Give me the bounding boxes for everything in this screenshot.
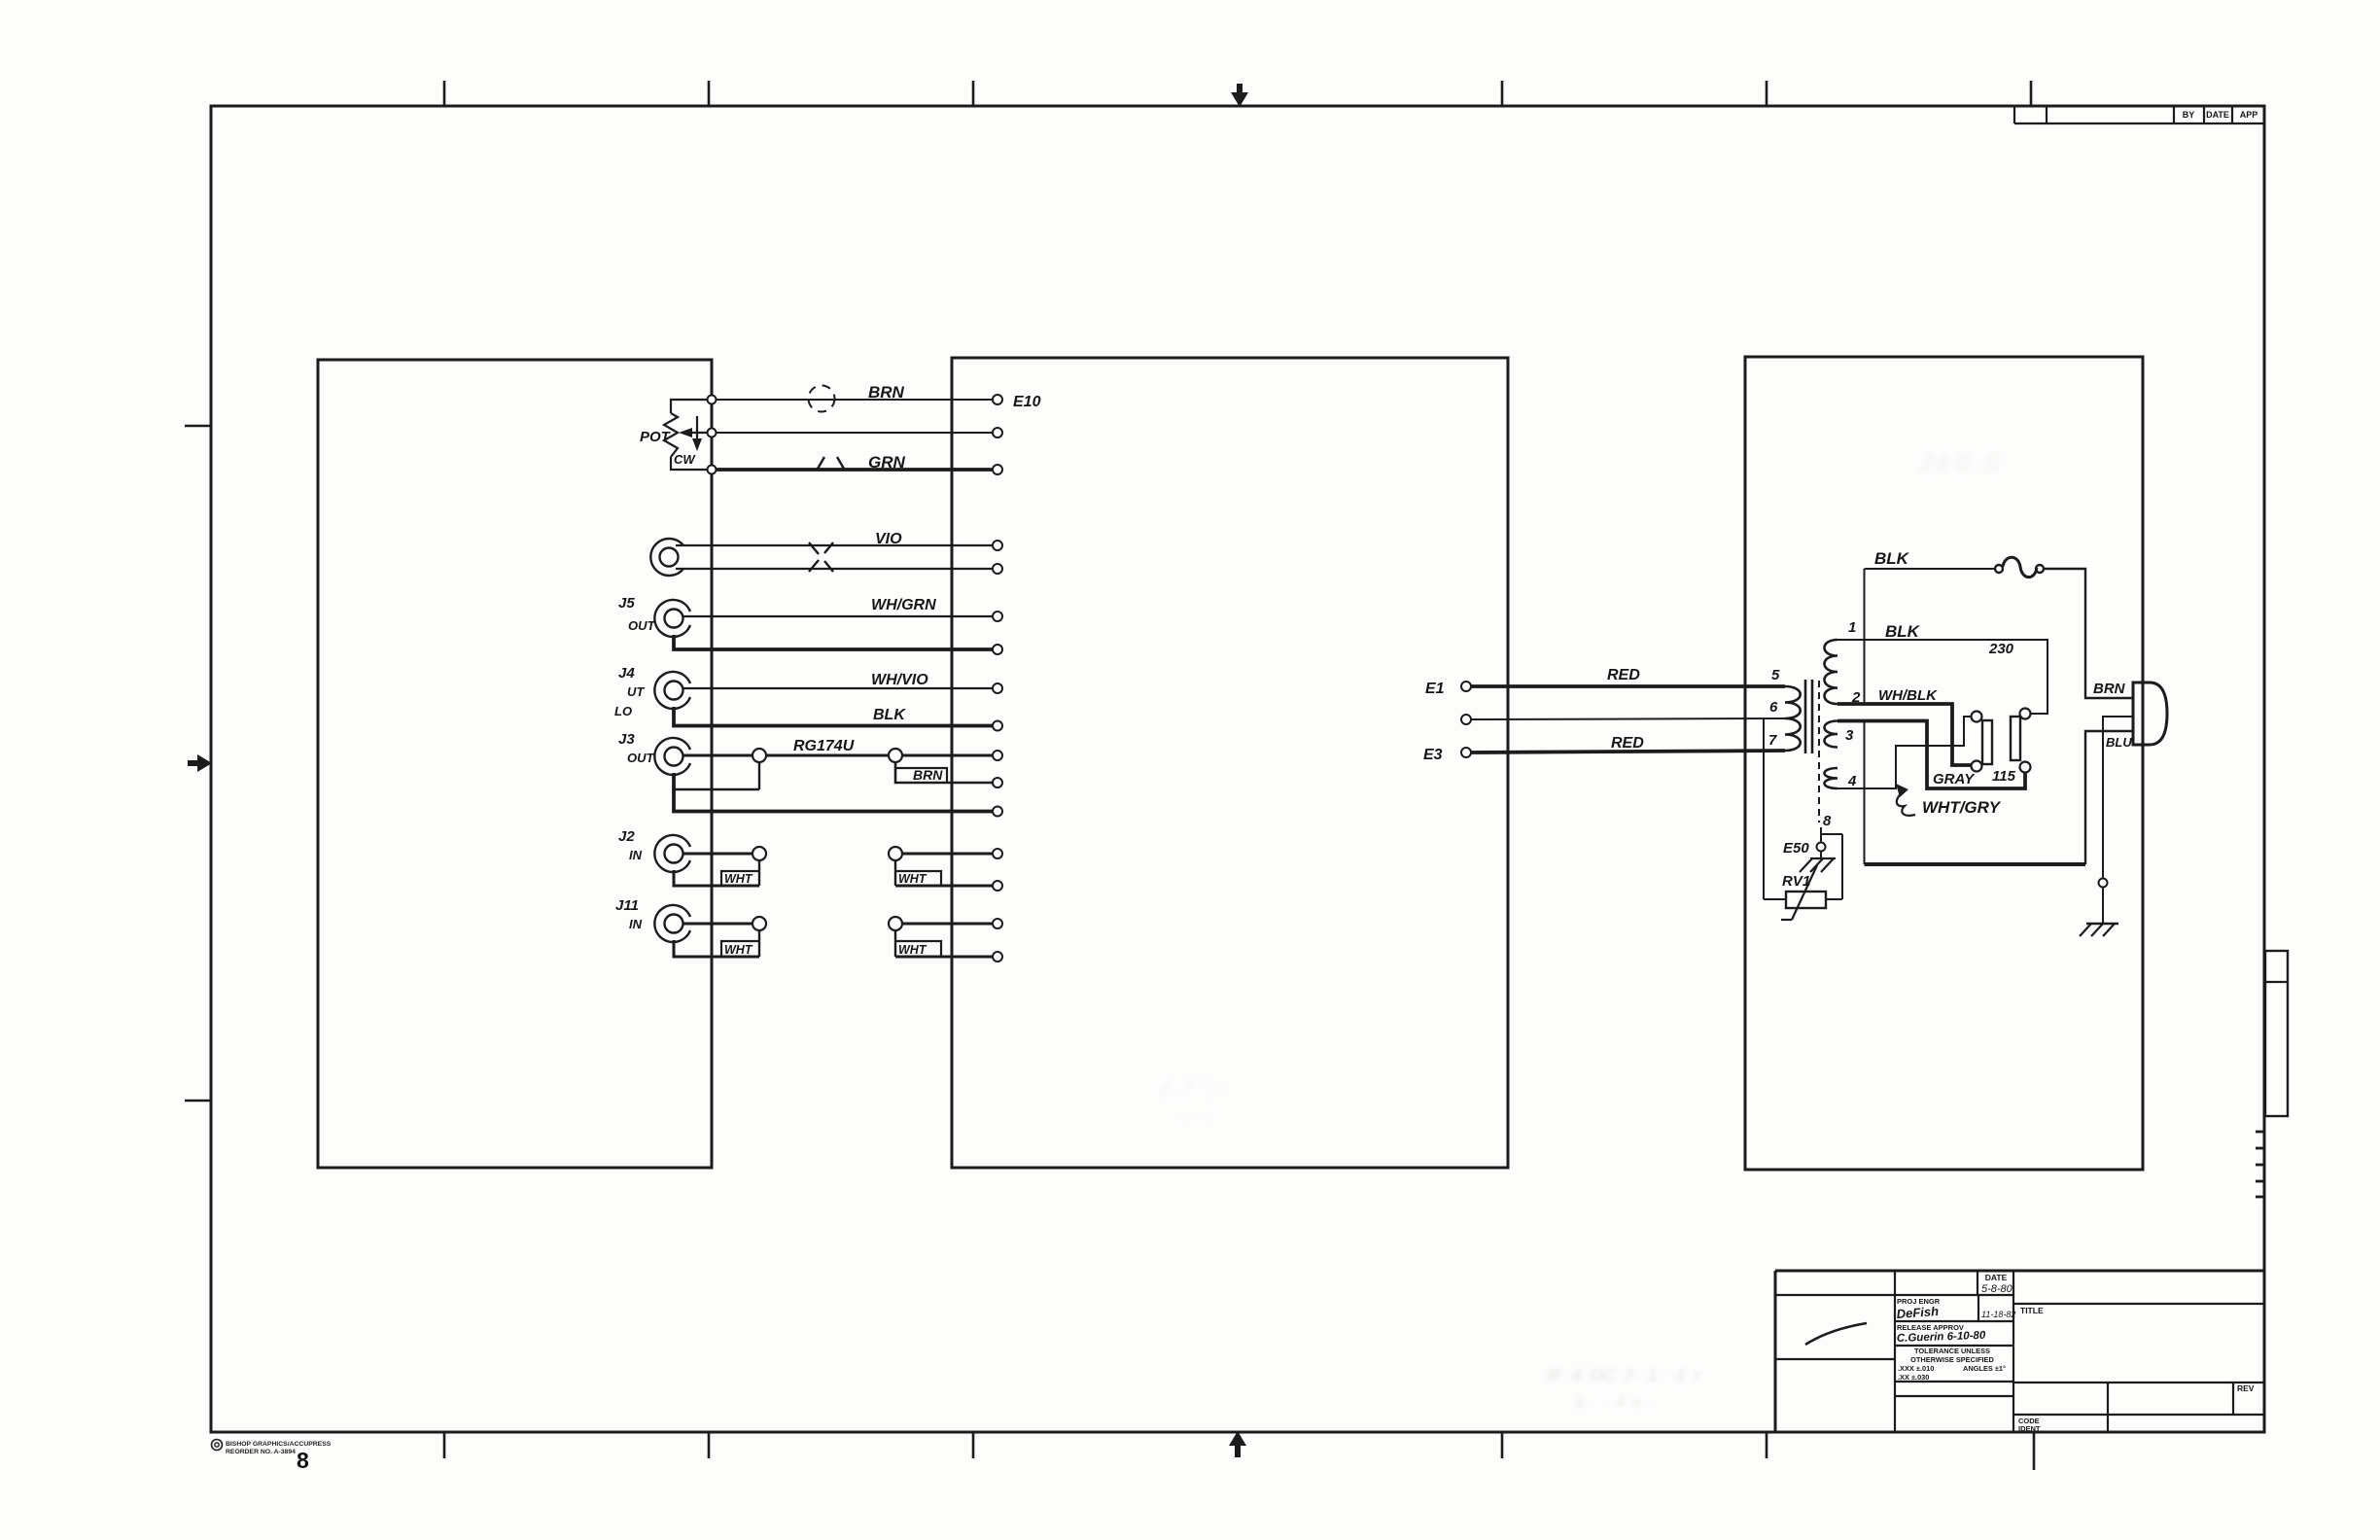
wire fuse to plug BRN pin xyxy=(2044,569,2133,698)
terminal E50 xyxy=(1817,843,1826,852)
svg-text:REV: REV xyxy=(2237,1383,2255,1393)
BRN flag on J3 drain xyxy=(895,762,993,783)
right chassis block xyxy=(1745,357,2143,1170)
svg-text:ANGLES ±1°: ANGLES ±1° xyxy=(1963,1364,2006,1373)
POT wiper arrow xyxy=(683,432,708,434)
svg-text:IF 4 OC 7- 1 -1 r: IF 4 OC 7- 1 -1 r xyxy=(1548,1366,1701,1384)
wire GRN xyxy=(717,468,994,472)
svg-text:8: 8 xyxy=(1823,813,1832,829)
svg-text:-, - . ;: -, - . ; xyxy=(1176,1107,1212,1124)
right edge dash marks xyxy=(2256,1131,2263,1134)
wire VIO lower xyxy=(676,568,993,570)
potentiometer POT xyxy=(671,400,708,413)
title block lower cells xyxy=(2013,1382,2264,1383)
terminal J3 drain xyxy=(993,778,1002,787)
connector J3 xyxy=(654,738,690,775)
svg-text:VIO: VIO xyxy=(875,531,902,547)
wire pin1 BLK xyxy=(1837,640,2047,714)
terminal BLK xyxy=(993,721,1002,731)
bottom centerline arrow xyxy=(1229,1431,1246,1457)
svg-text:3: 3 xyxy=(1845,727,1854,744)
wire VIO upper xyxy=(676,544,993,546)
svg-text:GRN: GRN xyxy=(868,453,906,472)
wire WH/GRN xyxy=(682,615,993,617)
wire J11 shield xyxy=(674,940,759,957)
svg-text:GRAY: GRAY xyxy=(1933,771,1976,787)
revision strip top right xyxy=(2013,106,2015,123)
svg-text:UT: UT xyxy=(627,684,645,699)
wire E2 to pin6 xyxy=(1471,718,1785,719)
wire J3 to splice xyxy=(682,754,752,757)
terminal J3 center xyxy=(993,751,1002,760)
wire pin2 WH/BLK xyxy=(1837,704,1971,765)
pencil slash mark in title block xyxy=(1805,1323,1867,1345)
sheet border frame xyxy=(211,106,2264,1432)
wire BRN from POT to E10 xyxy=(717,399,994,401)
svg-text:POT: POT xyxy=(640,429,672,445)
svg-text:115: 115 xyxy=(1992,768,2016,785)
wire J11 drain to terminal xyxy=(895,956,993,959)
wire BLK from J4 shield xyxy=(674,707,993,726)
top edge fold tick marks xyxy=(443,81,446,106)
svg-text:WHT: WHT xyxy=(898,943,927,957)
svg-text:IN: IN xyxy=(629,848,643,862)
plug P1 xyxy=(2133,682,2167,745)
transformer secondary upper winding xyxy=(1825,640,1838,704)
svg-text:1: 1 xyxy=(1848,619,1856,636)
svg-text:BISHOP GRAPHICS/ACCUPRESS: BISHOP GRAPHICS/ACCUPRESS xyxy=(226,1441,332,1448)
faint bleed-through ghost middle block xyxy=(1157,1078,1226,1124)
connector J4 xyxy=(654,672,690,709)
middle chassis block xyxy=(952,358,1508,1168)
svg-text:BLK: BLK xyxy=(1885,622,1921,641)
svg-text:J2: J2 xyxy=(618,828,635,845)
svg-text:6: 6 xyxy=(1769,699,1778,716)
svg-text:OUT: OUT xyxy=(628,618,656,633)
svg-text:REORDER NO. A-3894: REORDER NO. A-3894 xyxy=(226,1449,296,1455)
faint bleed-through ghost right block xyxy=(1919,448,1999,477)
chassis ground xyxy=(2086,923,2118,925)
svg-text:CW: CW xyxy=(674,452,696,467)
wire J2 drain to terminal xyxy=(895,885,993,888)
varistor RV1 xyxy=(1786,892,1826,908)
POT terminal circles xyxy=(708,396,717,404)
terminal chassis feedthrough xyxy=(2099,879,2108,888)
svg-text:E50: E50 xyxy=(1783,840,1809,857)
twisted pair marker dashed circle xyxy=(809,386,835,412)
svg-text:a . - 4 o .: a . - 4 o . xyxy=(1575,1394,1653,1411)
wire splice to terminal xyxy=(902,754,993,757)
selector bar right xyxy=(2011,717,2020,760)
bottom edge fold tick marks xyxy=(443,1432,446,1458)
voltage selector S1 contacts xyxy=(1972,712,1982,722)
terminal row2 xyxy=(993,428,1002,437)
svg-text:OUT: OUT xyxy=(627,751,655,765)
splice J3 right xyxy=(889,749,902,762)
svg-text:DATE: DATE xyxy=(1985,1273,2008,1282)
svg-text:BLK: BLK xyxy=(873,707,906,723)
terminal E10 xyxy=(993,395,1002,404)
svg-text:BLK: BLK xyxy=(1874,549,1910,568)
selector bar left xyxy=(1982,720,1992,764)
svg-text:WHT: WHT xyxy=(898,872,927,886)
fuse F1 xyxy=(1995,565,2003,573)
left chassis block xyxy=(318,360,712,1168)
svg-text:8: 8 xyxy=(297,1448,309,1473)
svg-text:BRN: BRN xyxy=(913,767,943,783)
svg-text:WH/VIO: WH/VIO xyxy=(871,672,928,688)
svg-text:4: 4 xyxy=(1847,773,1857,789)
wire plug middle pin to chassis xyxy=(2103,717,2133,878)
varistor RV1 loop xyxy=(1821,833,1842,835)
wire RG174U xyxy=(766,754,889,757)
connector shield circles xyxy=(650,539,683,576)
svg-text:5-8-80: 5-8-80 xyxy=(1981,1283,2013,1295)
WHT flag right J2 xyxy=(894,860,896,886)
title block left cell dividers xyxy=(1775,1294,1895,1296)
terminal E2 xyxy=(1461,715,1471,724)
svg-text:J4: J4 xyxy=(618,665,635,682)
svg-text:DATE: DATE xyxy=(2206,110,2229,120)
svg-text:E10: E10 xyxy=(1013,394,1041,410)
svg-text:J5: J5 xyxy=(618,595,635,612)
wire WH/VIO xyxy=(682,687,993,689)
terminal J5 shield xyxy=(993,645,1002,654)
WHT flag right J11 xyxy=(894,930,896,957)
svg-text:BY: BY xyxy=(2183,110,2195,120)
twisted pair crossing mark xyxy=(809,560,819,572)
WHT/GRY leader arrow xyxy=(1896,784,1908,797)
splice J3 left xyxy=(752,749,766,762)
wire J11 to splice xyxy=(682,923,752,926)
svg-text:IDENT: IDENT xyxy=(2018,1424,2041,1433)
svg-text:WH/GRN: WH/GRN xyxy=(871,597,936,613)
WHT flag left J2 xyxy=(758,860,760,886)
wire J11 right to terminal xyxy=(902,923,993,926)
left edge tick marks xyxy=(185,425,211,428)
wire RED E3 to pin7 xyxy=(1471,751,1785,752)
svg-text:.XXX ±.010: .XXX ±.010 xyxy=(1898,1364,1934,1373)
svg-text:LO: LO xyxy=(614,704,632,718)
svg-text:WHT: WHT xyxy=(724,943,753,957)
svg-text:J3: J3 xyxy=(618,731,635,748)
terminal J2 center xyxy=(993,849,1002,858)
faint watermark near title block xyxy=(1548,1366,1701,1411)
svg-text:BRN: BRN xyxy=(868,383,905,402)
terminal WH/GRN xyxy=(993,612,1002,621)
left centerline arrow xyxy=(188,754,212,772)
svg-text:.XX ±.030: .XX ±.030 xyxy=(1898,1373,1929,1382)
terminal J2 drain xyxy=(993,881,1002,891)
terminal GRN xyxy=(993,465,1002,474)
wire BLK to fuse xyxy=(1865,568,1995,570)
svg-text:WHT/GRY: WHT/GRY xyxy=(1922,798,2002,817)
transformer T1 primary winding xyxy=(1785,686,1801,751)
terminal E1 xyxy=(1461,682,1471,691)
svg-text:APP: APP xyxy=(2240,110,2258,120)
wire pin3 to selector xyxy=(1837,721,2025,789)
terminal VIO upper xyxy=(993,541,1002,550)
Bishop Graphics vendor mark xyxy=(212,1440,223,1451)
svg-text:E3: E3 xyxy=(1423,747,1443,763)
right edge registration rectangle xyxy=(2265,951,2288,1116)
transformer shield dashed line xyxy=(1818,681,1820,822)
terminal VIO lower xyxy=(993,564,1002,574)
connector J11 xyxy=(654,905,690,942)
svg-text:E1: E1 xyxy=(1425,681,1445,697)
wire J2 shield xyxy=(674,870,759,886)
wire bottom loop to plug BLU pin xyxy=(1864,721,1866,865)
POT adjust down arrow xyxy=(696,416,698,440)
wire POT wiper to terminal xyxy=(717,432,994,434)
svg-text:24 0 -5: 24 0 -5 xyxy=(1919,448,1999,477)
terminal E3 xyxy=(1461,748,1471,757)
connector J5 xyxy=(654,600,690,637)
wire RED E1 to pin5 xyxy=(1471,684,1785,688)
transformer core xyxy=(1804,680,1807,753)
wire J5 shield xyxy=(674,635,993,649)
twisted pair marker arcs xyxy=(818,457,824,469)
DATE cell xyxy=(1977,1271,1978,1295)
wire J2 right to terminal xyxy=(902,853,993,856)
svg-text:WH/BLK: WH/BLK xyxy=(1878,687,1938,704)
svg-text:J11: J11 xyxy=(615,897,639,914)
terminal J11 center xyxy=(993,919,1002,928)
svg-text:RED: RED xyxy=(1611,735,1644,752)
svg-text:11-18-82: 11-18-82 xyxy=(1981,1310,2015,1319)
wire pin4 WHT/GRY xyxy=(1837,717,1971,788)
terminal J11 drain xyxy=(993,952,1002,962)
svg-text:BLU: BLU xyxy=(2106,735,2132,750)
transformer secondary lower winding pin4 half xyxy=(1825,768,1838,788)
terminal WH/VIO xyxy=(993,683,1002,693)
connector J2 xyxy=(654,835,690,872)
svg-text:OTHERWISE SPECIFIED: OTHERWISE SPECIFIED xyxy=(1910,1355,1994,1364)
E50 chassis ground xyxy=(1820,852,1822,858)
wire fuse feeder vertical xyxy=(1864,569,1866,704)
svg-text:TOLERANCE UNLESS: TOLERANCE UNLESS xyxy=(1914,1347,1990,1355)
svg-text:RED: RED xyxy=(1607,667,1640,683)
svg-text:TITLE: TITLE xyxy=(2020,1306,2044,1315)
title block frame xyxy=(1775,1270,2264,1273)
svg-text:230: 230 xyxy=(1988,641,2014,657)
splice J11 right xyxy=(889,917,902,930)
wire J2 to splice xyxy=(682,853,752,856)
top centerline arrow xyxy=(1231,84,1248,107)
splice J2 left xyxy=(752,847,766,860)
transformer secondary lower winding pin3 half xyxy=(1825,721,1838,748)
svg-text:5: 5 xyxy=(1771,667,1780,683)
TITLE cell xyxy=(2013,1303,2264,1305)
wire J3 shield xyxy=(674,773,993,812)
WHT flag left J11 xyxy=(758,930,760,957)
svg-text:IN: IN xyxy=(629,917,643,931)
svg-text:RG174U: RG174U xyxy=(793,738,855,754)
splice J11 left xyxy=(752,917,766,930)
svg-text:DeFish: DeFish xyxy=(1896,1304,1939,1321)
splice J2 right xyxy=(889,847,902,860)
svg-text:-( . 7 ' | ~: -( . 7 ' | ~ xyxy=(1157,1078,1226,1098)
terminal J3 shield xyxy=(993,807,1002,817)
svg-text:7: 7 xyxy=(1768,732,1777,749)
svg-text:WHT: WHT xyxy=(724,872,753,886)
svg-text:BRN: BRN xyxy=(2093,681,2126,697)
svg-text:RV1: RV1 xyxy=(1782,873,1810,890)
